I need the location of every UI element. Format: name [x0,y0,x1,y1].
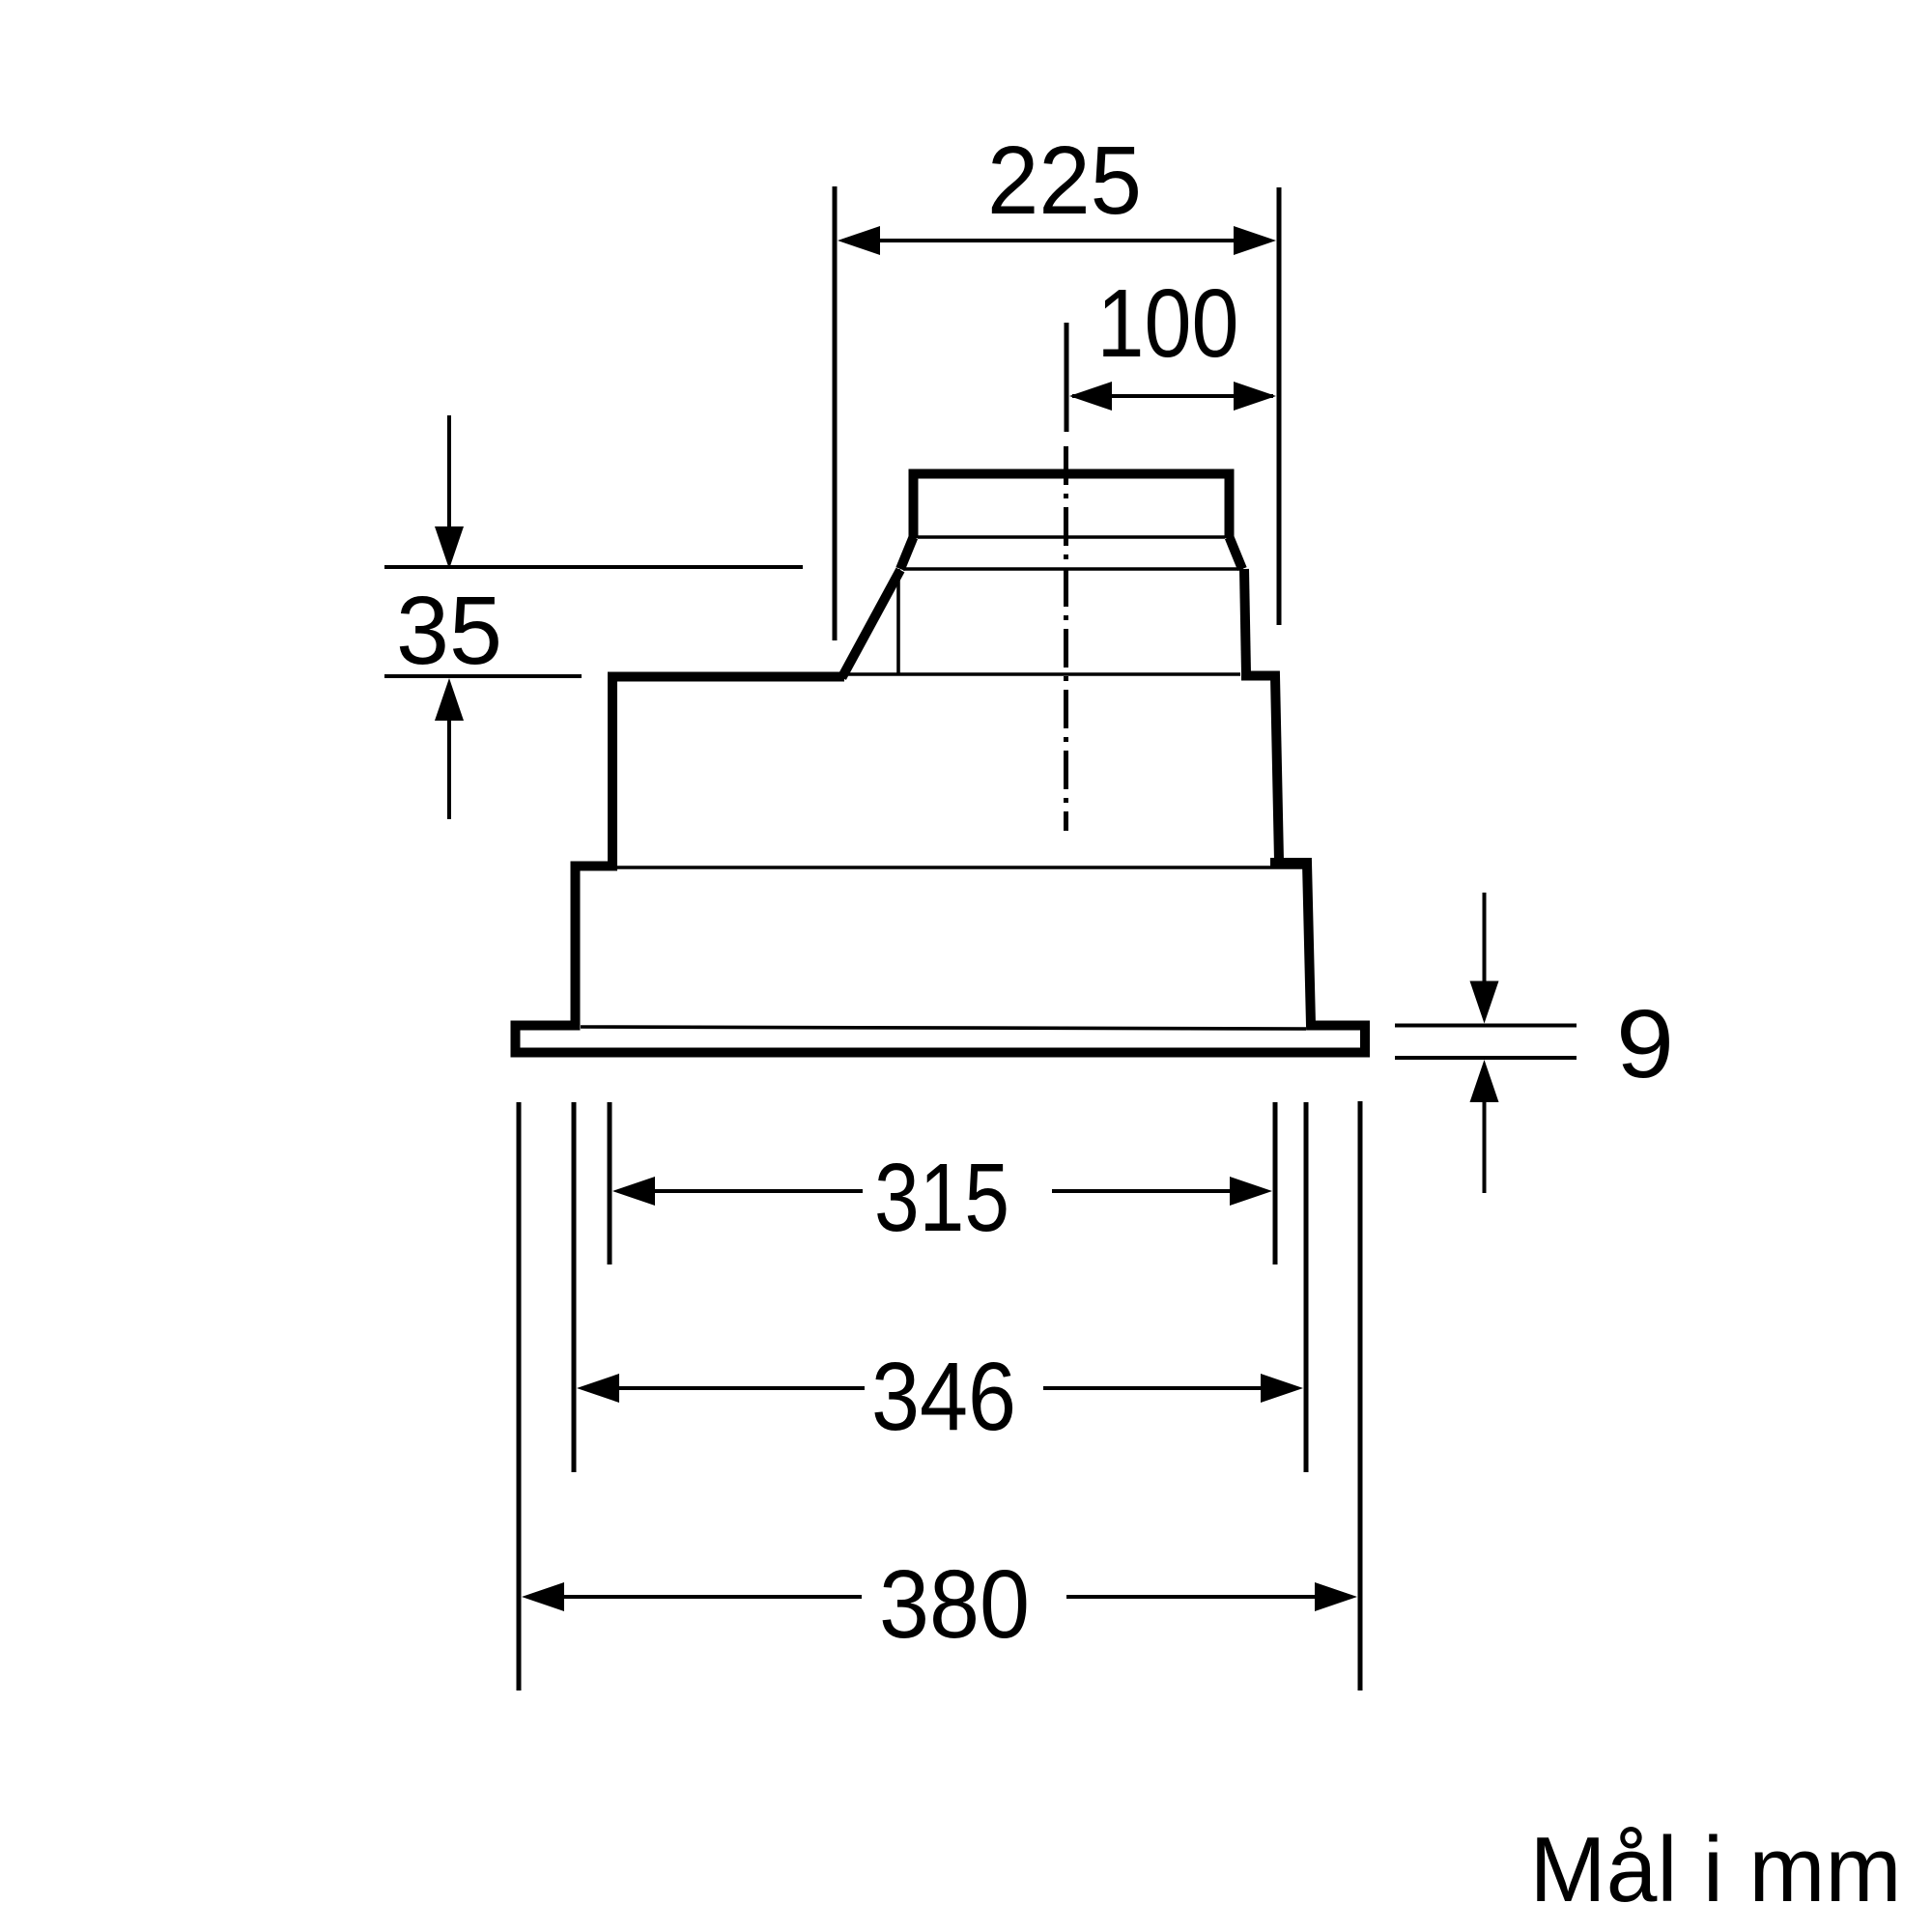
dimension 315 dimension line left segment [619,1189,863,1193]
vertical centerline of duct (dash-dot) [1064,446,1068,831]
duct neck left hidden edge (thin) [896,569,900,674]
dimension 35 upper arrow shaft [447,415,451,530]
dimension 380 left extension line [517,1102,522,1690]
duct collar right taper (thick) [1230,537,1243,569]
dimension 225 dimension line [844,239,1269,242]
duct collar left taper (thick) [900,537,914,569]
svg-text:Mål i mm: Mål i mm [1530,1818,1902,1921]
dimension 315 left extension line [608,1102,612,1264]
dimension 315 right extension line [1273,1102,1278,1264]
dimension 225 left arrowhead [838,226,880,255]
hood mid body top edge (thin) [616,866,1304,869]
svg-text:380: 380 [879,1550,1030,1659]
svg-text:225: 225 [987,127,1142,235]
hood top transition diagonal (thick) [842,570,901,678]
dimension 380 dimension line right segment [1066,1595,1350,1599]
dimension 35 lower arrowhead (up) [435,678,464,721]
dimension 9 upper arrow shaft [1483,893,1487,984]
hood upper body top edge (thin) [844,672,1240,676]
dimension 346 right extension line [1304,1102,1309,1472]
svg-text:100: 100 [1097,270,1239,378]
hood top step right edge (thick) [1241,676,1279,862]
dimension 35 upper extension line [384,565,803,569]
dimension 225 right extension line [1277,187,1282,625]
duct collar flange bottom edge (thin) [918,535,1225,539]
dimension 35 lower arrow shaft [447,721,451,819]
duct neck right edge (thick) [1244,569,1246,673]
dimension 9 lower arrowhead (up) [1470,1060,1499,1102]
dimension 315 left arrowhead [612,1177,655,1206]
dimension 9 upper arrowhead (down) [1470,981,1499,1024]
dimension 380 right extension line [1358,1101,1363,1690]
dimension 9 lower reference line [1395,1056,1577,1060]
dimension 380 dimension line left segment [528,1595,862,1599]
dimension 346 right arrowhead [1261,1374,1303,1403]
svg-text:346: 346 [871,1343,1016,1451]
dimension 100 extension line (solid top of centerline) [1065,323,1069,432]
dimension 346 left extension line [572,1102,577,1472]
dimension 346 left arrowhead [577,1374,619,1403]
svg-text:315: 315 [874,1144,1009,1252]
dimension 315 right arrowhead [1230,1177,1272,1206]
dimension 100 left arrowhead [1069,382,1112,411]
bottom plate top surface (thin) [581,1027,1306,1029]
hood upper body top-left edge and left side (thick) [516,677,845,1053]
dimension 9 upper reference line [1395,1024,1577,1028]
svg-text:9: 9 [1616,990,1674,1098]
dimension 225 right arrowhead [1234,226,1276,255]
dimension 100 dimension line [1072,394,1273,398]
dimension 346 dimension line left segment [583,1386,865,1390]
dimension 380 right arrowhead [1315,1582,1357,1611]
dimension 225 left extension line [833,186,838,640]
dimension 9 lower arrow shaft [1483,1102,1487,1193]
dimension 100 right arrowhead [1234,382,1276,411]
duct collar base edge (thin) [903,567,1243,571]
duct collar flange (thick outline) [914,474,1230,539]
bottom plate right end (thick) [1360,1026,1370,1053]
svg-text:35: 35 [396,577,502,685]
dimension 346 dimension line right segment [1043,1386,1296,1390]
hood right step to mid body (thick) [1270,863,1370,1026]
dimension 315 dimension line right segment [1052,1189,1265,1193]
dimension 35 upper arrowhead (down) [435,526,464,569]
dimension 35 lower extension line [384,674,582,678]
bottom plate bottom edge (thick) [511,1048,1371,1058]
dimension 380 left arrowhead [522,1582,564,1611]
